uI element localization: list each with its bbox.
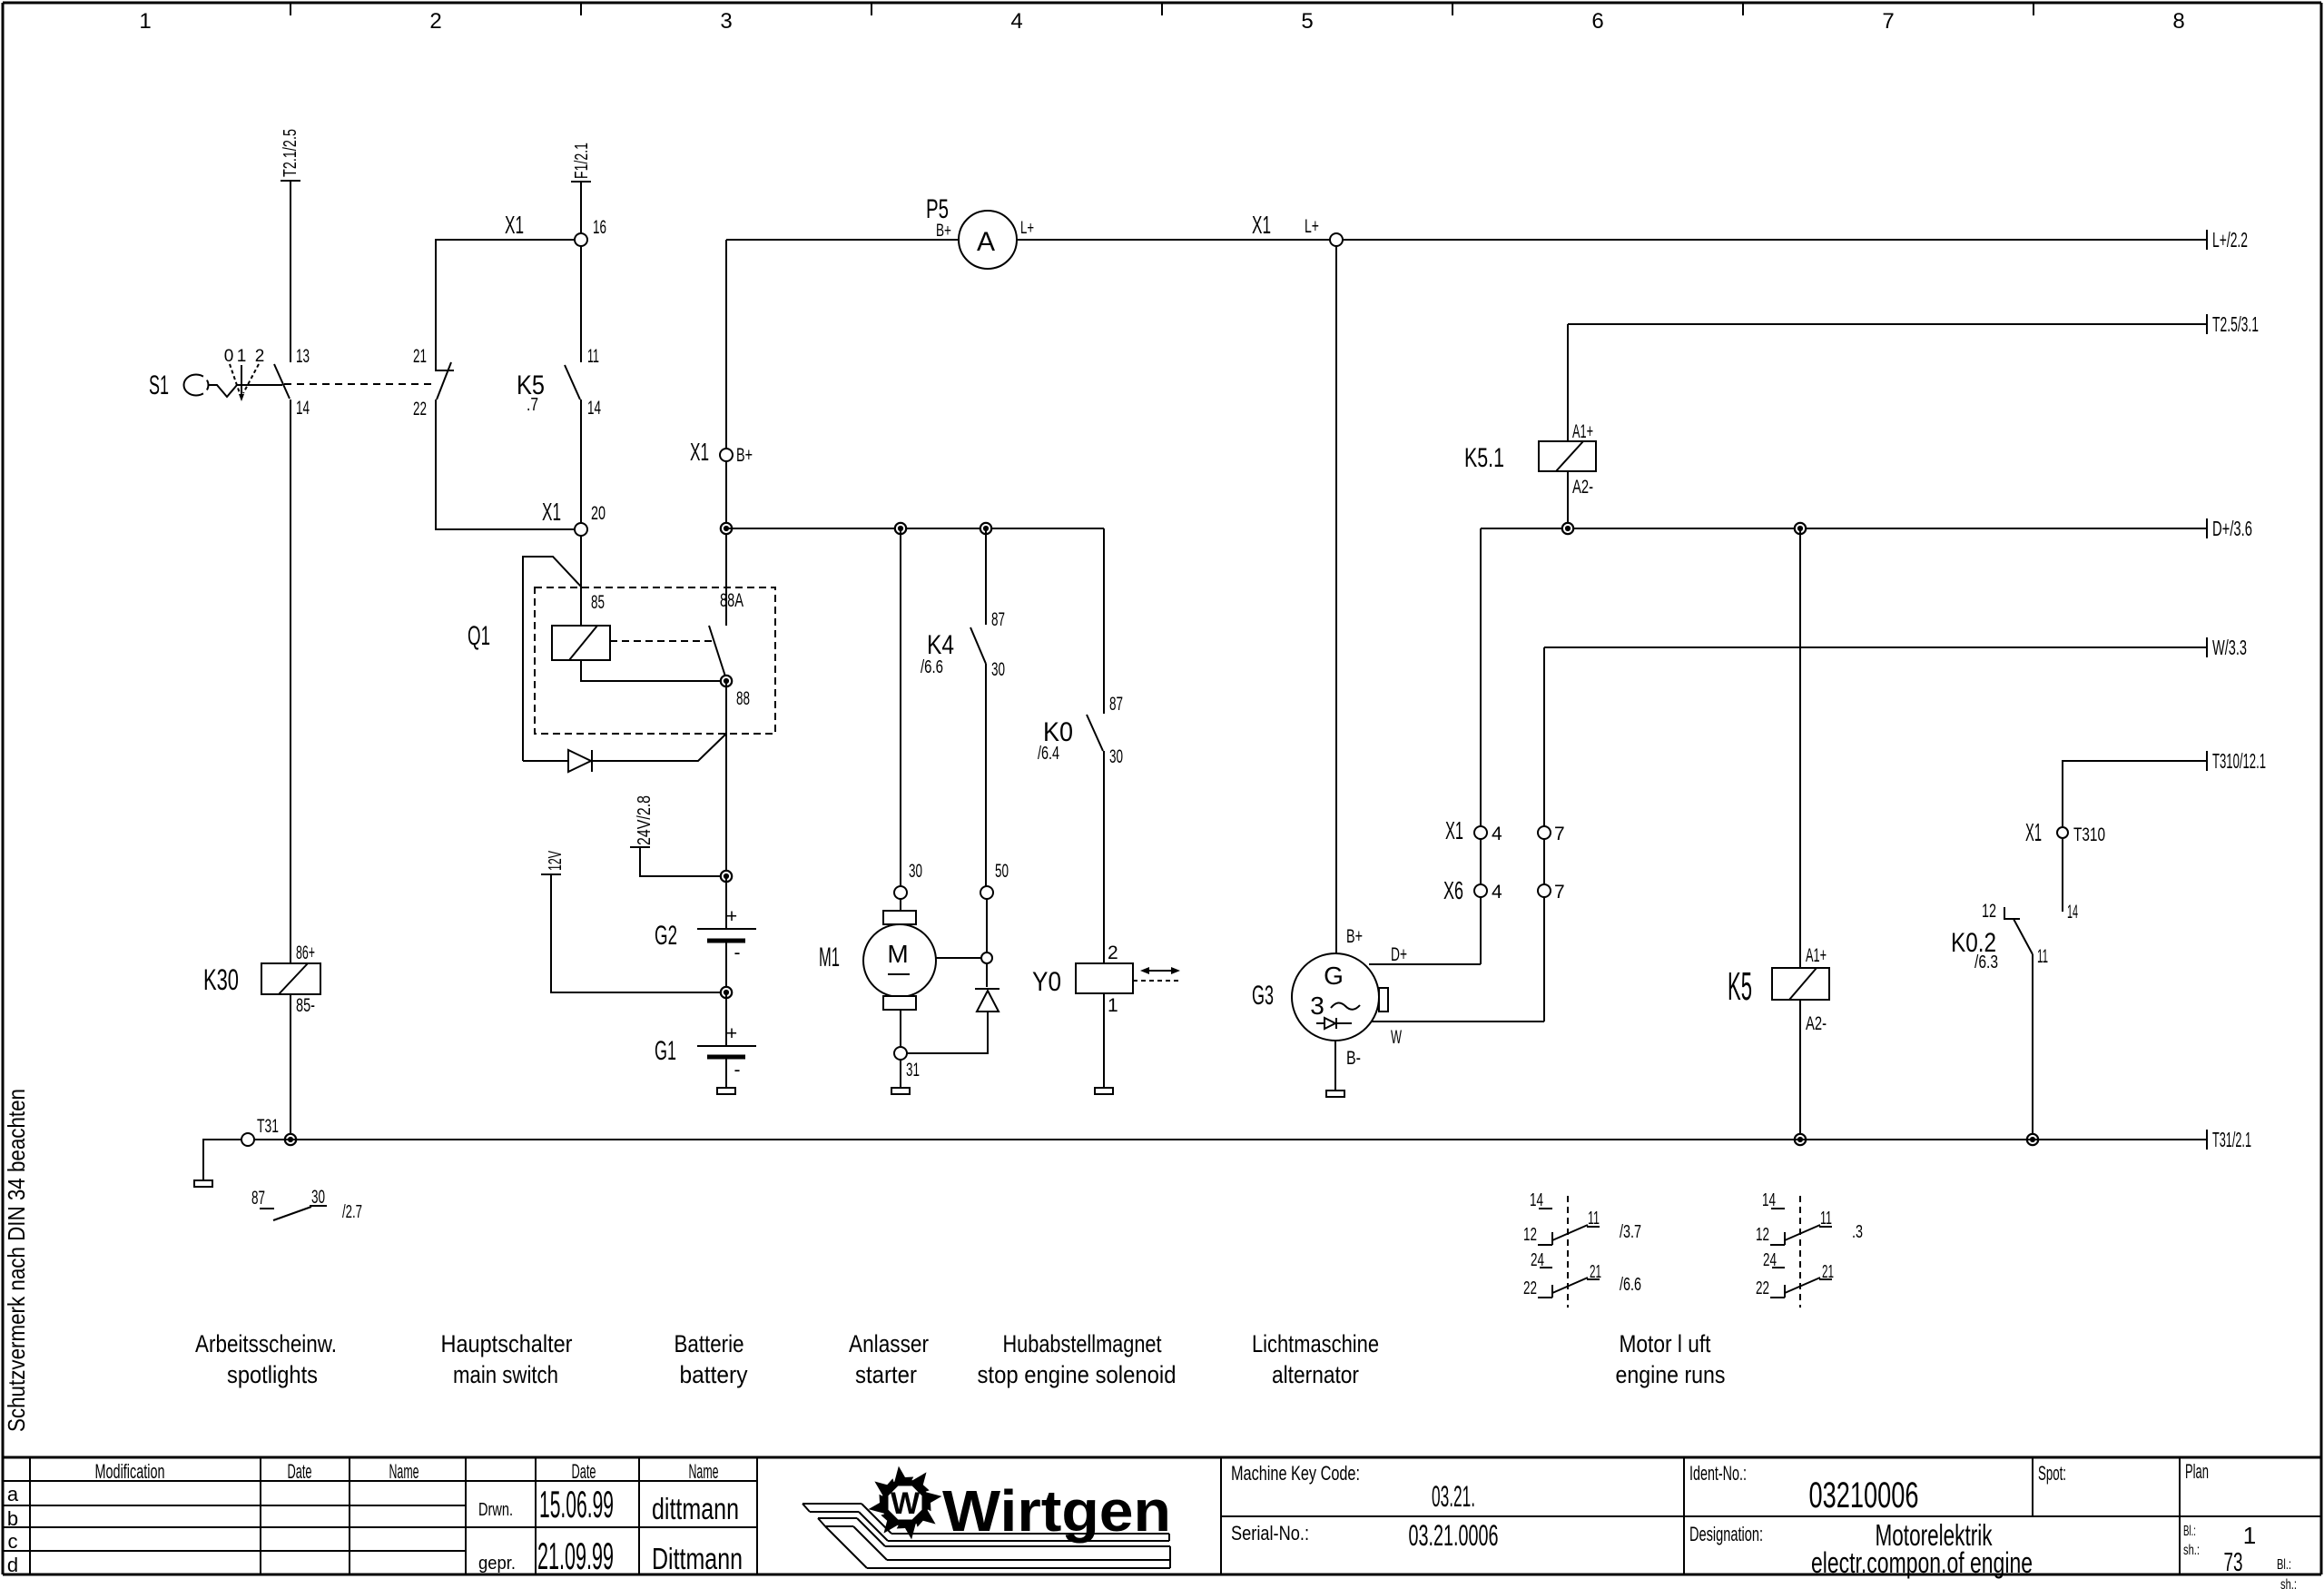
svg-text:-: - xyxy=(734,943,741,963)
svg-text:11: 11 xyxy=(587,346,599,367)
node junction K4 tap xyxy=(980,523,991,534)
contact K5 21/22 (NC) xyxy=(413,346,454,419)
svg-text:P5: P5 xyxy=(926,194,949,224)
wire T310 to contact 14 xyxy=(2062,839,2063,912)
flag T31/2.1 xyxy=(2206,1130,2208,1150)
ground bar T31 xyxy=(194,1180,212,1187)
wire M1 to solenoid node xyxy=(936,957,981,959)
svg-text:Name: Name xyxy=(689,1460,719,1483)
svg-text:6: 6 xyxy=(1591,9,1603,34)
ident no cell xyxy=(1689,1462,1919,1515)
wire rail to M1 30 xyxy=(900,528,901,886)
svg-text:Q1: Q1 xyxy=(468,621,490,651)
svg-text:spotlights: spotlights xyxy=(227,1361,318,1388)
svg-text:X1: X1 xyxy=(690,438,709,466)
wire Q1 bypass branch upper xyxy=(523,557,581,761)
terminal X1 B+ xyxy=(690,438,753,466)
wire B+ to contact 88A xyxy=(725,461,727,626)
rail L+ (y=264) left of P5 xyxy=(726,239,959,241)
svg-text:electr.compon.of engine: electr.compon.of engine xyxy=(1811,1546,2033,1579)
svg-text:20: 20 xyxy=(591,503,606,524)
wire contact K0 to Y0 xyxy=(1103,751,1105,963)
svg-text:2: 2 xyxy=(255,347,265,366)
svg-text:14: 14 xyxy=(1762,1190,1776,1210)
wire K30 to T31 rail xyxy=(290,994,291,1140)
svg-text:31: 31 xyxy=(906,1060,920,1081)
svg-text:Hubabstellmagnet: Hubabstellmagnet xyxy=(1003,1330,1162,1357)
wire X1 L+ down to G3 B+ xyxy=(1335,246,1337,953)
svg-text:85-: 85- xyxy=(296,995,315,1016)
selector positions 0 1 2 xyxy=(224,347,265,401)
sheet number cell xyxy=(2183,1522,2297,1589)
wire diode to 31 xyxy=(907,1012,988,1053)
svg-text:/6.6: /6.6 xyxy=(1620,1275,1641,1295)
label Anlasser starter xyxy=(849,1330,929,1388)
node junction 24V tap xyxy=(721,871,732,882)
flag W/3.3 xyxy=(2206,637,2208,657)
svg-text:2: 2 xyxy=(429,9,441,34)
diode M1 freewheel xyxy=(975,989,1000,1012)
svg-text:12V: 12V xyxy=(546,851,566,871)
svg-text:X1: X1 xyxy=(542,498,561,526)
svg-text:A2-: A2- xyxy=(1572,477,1593,498)
contact K5 11/14 (NO) xyxy=(517,346,601,419)
svg-text:11: 11 xyxy=(1588,1209,1600,1229)
svg-text:86+: 86+ xyxy=(296,943,315,963)
Wirtgen logo gear emblem xyxy=(869,1466,942,1540)
svg-text:Bl.:: Bl.: xyxy=(2183,1524,2196,1539)
svg-text:Hauptschalter: Hauptschalter xyxy=(441,1330,573,1357)
wire K0.2 11 to T31 rail xyxy=(2032,954,2033,1140)
svg-text:c: c xyxy=(8,1530,18,1553)
label Hubabstellmagnet stop engine solenoid xyxy=(978,1330,1177,1388)
svg-text:Batterie: Batterie xyxy=(675,1330,744,1357)
wire G3 D+ xyxy=(1369,944,1481,965)
svg-text:30: 30 xyxy=(311,1187,325,1208)
svg-text:1: 1 xyxy=(1108,995,1118,1016)
svg-text:T2.1/2.5: T2.1/2.5 xyxy=(281,129,300,177)
svg-text:4: 4 xyxy=(1492,882,1502,903)
svg-text:03.21.: 03.21. xyxy=(1432,1480,1475,1513)
svg-text:14: 14 xyxy=(296,398,310,419)
wire rail to contact K4 87 xyxy=(985,528,987,625)
svg-text:G3: G3 xyxy=(1252,981,1274,1011)
relay coil K5.1 xyxy=(1464,421,1596,498)
svg-text:W/3.3: W/3.3 xyxy=(2212,636,2247,659)
svg-text:main switch: main switch xyxy=(453,1361,558,1388)
mechanical link Q1 coil to contact xyxy=(610,640,714,642)
svg-text:7: 7 xyxy=(1882,9,1894,34)
diode Q1 bypass xyxy=(523,734,726,772)
svg-text:88A: 88A xyxy=(720,590,743,611)
svg-text:14: 14 xyxy=(587,398,601,419)
svg-text:+: + xyxy=(726,906,737,927)
svg-text:Bl.:: Bl.: xyxy=(2277,1557,2291,1573)
label Motor l uft engine runs xyxy=(1616,1330,1726,1388)
battery G1 xyxy=(655,992,756,1088)
svg-text:D+: D+ xyxy=(1391,944,1407,965)
terminal 31 M1 xyxy=(894,1047,920,1081)
rail T2.5 (y=357) xyxy=(1568,323,2207,325)
contact Q1 88A/88 xyxy=(709,626,726,679)
svg-text:12: 12 xyxy=(1982,901,1996,922)
svg-text:3: 3 xyxy=(1310,992,1324,1020)
svg-text:13: 13 xyxy=(296,346,310,367)
svg-text:12: 12 xyxy=(1523,1225,1537,1245)
rail L+ P5 to X1 xyxy=(1017,239,1330,241)
svg-text:B-: B- xyxy=(1346,1048,1361,1069)
actuator arrow Y0 xyxy=(1133,967,1180,981)
svg-text:88: 88 xyxy=(736,688,750,709)
wire G3 W xyxy=(1372,1021,1544,1048)
svg-text:Y0: Y0 xyxy=(1032,967,1061,997)
node 88 junction xyxy=(721,676,750,709)
svg-text:D+/3.6: D+/3.6 xyxy=(2212,517,2252,540)
svg-text:4: 4 xyxy=(1010,9,1022,34)
wire node 88 down to battery xyxy=(725,681,727,876)
svg-text:87: 87 xyxy=(991,609,1005,630)
svg-text:7: 7 xyxy=(1554,882,1565,903)
contact map K5.1 xyxy=(1523,1190,1641,1308)
ground bar G3 xyxy=(1326,1091,1344,1097)
svg-text:T310: T310 xyxy=(2073,824,2105,845)
wire X1:16 to contact 11 xyxy=(580,246,582,362)
title block row letters xyxy=(7,1483,19,1576)
svg-text:X1: X1 xyxy=(1252,211,1271,239)
svg-text:24V/2.8: 24V/2.8 xyxy=(635,795,655,845)
node junction K30 on T31 rail xyxy=(285,1134,296,1145)
svg-text:11: 11 xyxy=(2037,946,2048,967)
svg-text:03.21.0006: 03.21.0006 xyxy=(1409,1519,1499,1552)
wire G3 B- to ground xyxy=(1335,1041,1361,1091)
flag L+/2.2 xyxy=(2206,230,2208,250)
machine key code cell xyxy=(1231,1462,1475,1513)
flag T2.1/2.5 xyxy=(281,129,300,181)
svg-text:7: 7 xyxy=(1554,824,1565,844)
svg-text:.7: .7 xyxy=(527,395,538,415)
contact map K5 xyxy=(1756,1190,1863,1308)
svg-text:dittmann: dittmann xyxy=(652,1492,739,1525)
svg-text:gepr.: gepr. xyxy=(478,1554,516,1574)
title block grid xyxy=(3,1457,2321,1574)
svg-text:A: A xyxy=(977,227,995,257)
svg-text:X1: X1 xyxy=(505,211,524,239)
svg-text:W: W xyxy=(891,1486,921,1521)
svg-text:X1: X1 xyxy=(1445,816,1463,844)
rail D+ (y=582) right section xyxy=(1481,528,2207,529)
svg-text:/6.3: /6.3 xyxy=(1974,952,1998,972)
flag F1/2.1 xyxy=(571,143,592,182)
svg-text:A1+: A1+ xyxy=(1572,421,1593,442)
svg-text:T2.5/3.1: T2.5/3.1 xyxy=(2212,312,2259,336)
terminal X1:7 xyxy=(1538,824,1565,844)
svg-text:4: 4 xyxy=(1492,824,1502,844)
label Arbeitsscheinw. spotlights xyxy=(195,1330,337,1388)
svg-text:/6.4: /6.4 xyxy=(1038,744,1059,764)
svg-text:.3: .3 xyxy=(1852,1222,1863,1242)
svg-text:87: 87 xyxy=(251,1188,265,1209)
svg-text:5: 5 xyxy=(1301,9,1313,34)
wire S1 terminal 13 xyxy=(290,181,291,362)
svg-text:B+: B+ xyxy=(736,445,753,466)
wire rail corner to contact K0 87 xyxy=(1103,528,1105,714)
svg-text:X6: X6 xyxy=(1443,876,1463,904)
svg-text:Modification: Modification xyxy=(95,1460,165,1483)
svg-text:engine runs: engine runs xyxy=(1616,1361,1726,1388)
node junction 12V tap xyxy=(721,987,732,998)
node junction K5 on T31 rail xyxy=(1795,1134,1806,1145)
svg-text:11: 11 xyxy=(1820,1209,1832,1229)
wire W column upper xyxy=(1543,647,1545,826)
svg-text:B+: B+ xyxy=(1346,926,1363,947)
node junction K5.1 on D+ rail xyxy=(1562,523,1573,534)
svg-text:Spot:: Spot: xyxy=(2038,1462,2066,1485)
designation cell xyxy=(1689,1518,2033,1579)
svg-text:B+: B+ xyxy=(936,222,951,241)
svg-text:M1: M1 xyxy=(819,943,840,972)
svg-text:21: 21 xyxy=(413,346,427,367)
svg-text:T31: T31 xyxy=(257,1116,279,1137)
svg-text:Name: Name xyxy=(389,1460,419,1483)
svg-text:Lichtmaschine: Lichtmaschine xyxy=(1252,1330,1379,1357)
contact K0.2 changeover xyxy=(1951,901,2048,972)
svg-text:d: d xyxy=(7,1554,18,1576)
terminal X6:7 xyxy=(1538,882,1565,903)
wire X6:7 to G3 W xyxy=(1543,897,1545,1021)
contact K4 87/30 xyxy=(921,609,1005,680)
svg-text:K5: K5 xyxy=(1728,964,1752,1009)
svg-text:Motor l uft: Motor l uft xyxy=(1620,1330,1711,1357)
relay coil K5 xyxy=(1728,945,1829,1034)
svg-text:22: 22 xyxy=(413,399,427,419)
svg-text:X1: X1 xyxy=(2025,818,2042,846)
wire contact K4 to terminal 50 xyxy=(985,664,987,886)
contact S1 13/14 xyxy=(274,346,310,419)
svg-text:A1+: A1+ xyxy=(1806,945,1827,966)
ammeter P5 xyxy=(926,194,1034,269)
svg-text:1: 1 xyxy=(237,347,247,366)
wire X1:7 to X6:7 xyxy=(1543,839,1545,884)
motor M1 xyxy=(819,899,936,1010)
wire K5.1 A2- to D+ rail xyxy=(1567,471,1569,528)
svg-text:K30: K30 xyxy=(203,963,239,996)
wire K5 A2- to T31 rail xyxy=(1799,1000,1801,1140)
wire 50 to node xyxy=(986,899,988,952)
svg-text:W: W xyxy=(1391,1027,1402,1048)
svg-text:87: 87 xyxy=(1109,694,1123,715)
alternator G3 xyxy=(1252,953,1379,1041)
wire M1 to terminal 31 xyxy=(900,1010,901,1047)
svg-text:30: 30 xyxy=(1109,746,1123,767)
wire node to diode xyxy=(986,963,988,987)
svg-text:alternator: alternator xyxy=(1272,1361,1359,1388)
svg-text:battery: battery xyxy=(680,1361,748,1388)
svg-text:30: 30 xyxy=(909,861,922,882)
mechanical link S1 to K5 contact xyxy=(284,383,434,385)
terminal X1 L+ xyxy=(1252,211,1343,246)
wire T2.5 to K5.1 A1+ xyxy=(1567,324,1569,441)
wire 31 to ground xyxy=(900,1060,901,1088)
svg-text:Machine Key Code:: Machine Key Code: xyxy=(1231,1462,1360,1485)
svg-text:Dittmann: Dittmann xyxy=(652,1542,743,1575)
title block drawn row xyxy=(478,1483,739,1525)
ground bar Y0 xyxy=(1095,1088,1113,1094)
svg-text:b: b xyxy=(7,1507,18,1530)
terminal 30 M1 xyxy=(894,861,922,899)
rail W (y=713) xyxy=(1544,646,2207,648)
svg-text:14: 14 xyxy=(2067,902,2078,923)
wire F1 to X1:16 xyxy=(580,182,582,233)
label Batterie battery xyxy=(675,1330,748,1388)
svg-text:Drwn.: Drwn. xyxy=(478,1500,513,1520)
wire X1:20 to Q1 coil 85 xyxy=(580,536,582,626)
wire X1:4 to X6:4 xyxy=(1480,839,1482,884)
terminal X1:4 xyxy=(1445,816,1502,844)
svg-text:stop engine solenoid: stop engine solenoid xyxy=(978,1361,1177,1388)
rail T310 (y=838) xyxy=(2063,761,2207,826)
terminal X1 T310 xyxy=(2025,818,2105,846)
svg-text:22: 22 xyxy=(1756,1278,1769,1298)
svg-text:Wirtgen: Wirtgen xyxy=(942,1478,1171,1544)
svg-text:/6.6: /6.6 xyxy=(921,657,943,677)
contact map K30 87/30 xyxy=(251,1187,362,1222)
svg-text:03210006: 03210006 xyxy=(1809,1475,1919,1515)
solenoid Y0 xyxy=(1032,943,1133,1016)
svg-text:K4: K4 xyxy=(927,630,954,660)
rail T31 (y=1255) xyxy=(254,1139,2207,1140)
flag T310/12.1 xyxy=(2206,751,2208,771)
svg-text:50: 50 xyxy=(995,861,1009,882)
relay Q1 enclosure (dashed) xyxy=(535,587,775,734)
wire contact 14 to X1:20 xyxy=(580,400,582,523)
svg-text:a: a xyxy=(7,1483,19,1505)
contact K0 87/30 xyxy=(1038,694,1123,767)
svg-text:22: 22 xyxy=(1523,1278,1537,1298)
svg-text:85: 85 xyxy=(591,592,605,613)
battery G2 xyxy=(655,876,756,992)
node junction K0.2 on T31 rail xyxy=(2027,1134,2038,1145)
svg-text:-: - xyxy=(734,1060,741,1081)
wire X1:16 to contact 21 xyxy=(436,240,575,363)
svg-text:12: 12 xyxy=(1756,1225,1769,1245)
svg-text:21.09.99: 21.09.99 xyxy=(537,1535,614,1577)
svg-text:3: 3 xyxy=(720,9,732,34)
svg-text:Arbeitsscheinw.: Arbeitsscheinw. xyxy=(195,1330,337,1357)
title block checked row xyxy=(478,1535,743,1577)
svg-text:G2: G2 xyxy=(655,921,677,951)
svg-text:16: 16 xyxy=(593,217,606,238)
svg-text:K5.1: K5.1 xyxy=(1464,443,1504,473)
label Lichtmaschine alternator xyxy=(1252,1330,1379,1388)
svg-text:30: 30 xyxy=(991,659,1005,680)
serial no cell xyxy=(1231,1519,1499,1552)
svg-text:sh.:: sh.: xyxy=(2183,1543,2200,1558)
svg-text:8: 8 xyxy=(2172,9,2184,34)
wire S1 14 to K30 xyxy=(290,400,291,963)
wire D+ rail to K5 A1+ xyxy=(1799,528,1801,968)
svg-text:/2.7: /2.7 xyxy=(342,1202,362,1222)
node junction B+ rail xyxy=(721,523,732,534)
svg-text:14: 14 xyxy=(1530,1190,1543,1210)
wire contact 22 to X1:20 xyxy=(436,400,574,529)
svg-text:15.06.99: 15.06.99 xyxy=(539,1483,614,1525)
relay coil K30 xyxy=(203,963,320,996)
svg-text:F1/2.1: F1/2.1 xyxy=(572,143,592,179)
relay coil Q1 xyxy=(468,621,610,660)
svg-text:73: 73 xyxy=(2224,1548,2243,1577)
ground bar battery G1 xyxy=(717,1088,735,1094)
terminal X1:16 xyxy=(505,211,606,246)
svg-text:L+: L+ xyxy=(1020,219,1034,238)
svg-text:Schutzvermerk nach DIN 34 beac: Schutzvermerk nach DIN 34 beachten xyxy=(3,1089,30,1432)
wire D+ column xyxy=(1480,528,1482,826)
svg-text:Designation:: Designation: xyxy=(1689,1523,1763,1545)
wire Y0 to ground xyxy=(1103,993,1105,1088)
svg-text:0: 0 xyxy=(224,347,234,366)
svg-text:Serial-No.:: Serial-No.: xyxy=(1231,1522,1309,1545)
ground bar M1 xyxy=(891,1088,910,1094)
flag D+/3.6 xyxy=(2206,518,2208,538)
title block headers xyxy=(95,1460,719,1483)
svg-text:T310/12.1: T310/12.1 xyxy=(2212,749,2266,773)
svg-text:M: M xyxy=(887,940,908,968)
terminal 50 xyxy=(980,861,1009,899)
svg-text:+: + xyxy=(726,1023,737,1044)
svg-text:Date: Date xyxy=(288,1460,312,1483)
wire coil bottom to node 88 xyxy=(581,660,720,681)
svg-text:/3.7: /3.7 xyxy=(1620,1222,1641,1242)
switch S1 operator xyxy=(149,370,282,400)
svg-text:2: 2 xyxy=(1108,943,1118,963)
wire L+ rail corner down to X1 B+ xyxy=(725,240,727,449)
node solenoid circle xyxy=(981,952,992,963)
svg-text:Plan: Plan xyxy=(2185,1460,2209,1483)
terminal X1:20 xyxy=(542,498,606,536)
flag 12V xyxy=(541,851,721,992)
svg-text:L+: L+ xyxy=(1305,216,1319,237)
svg-text:G1: G1 xyxy=(655,1036,676,1066)
svg-text:T31/2.1: T31/2.1 xyxy=(2212,1128,2251,1151)
svg-text:sh.:: sh.: xyxy=(2280,1577,2297,1589)
Wirtgen logo swoosh xyxy=(803,1504,1170,1568)
flag 24V/2.8 xyxy=(630,795,721,876)
svg-text:1: 1 xyxy=(2243,1522,2256,1549)
wire X6:4 to G3 D+ xyxy=(1480,897,1482,964)
node junction M1 tap xyxy=(895,523,906,534)
terminal box G3 W xyxy=(1379,988,1388,1012)
svg-text:Ident-No.:: Ident-No.: xyxy=(1689,1462,1747,1485)
flag T2.5/3.1 xyxy=(2206,314,2208,334)
svg-text:Anlasser: Anlasser xyxy=(849,1330,929,1357)
rail +24V (y=582) left section xyxy=(726,528,1104,529)
terminal X6:4 xyxy=(1443,876,1502,904)
node junction K5 coil on D+ rail xyxy=(1795,523,1806,534)
svg-text:L+/2.2: L+/2.2 xyxy=(2212,228,2248,252)
label Hauptschalter main switch xyxy=(441,1330,573,1388)
svg-text:G: G xyxy=(1324,962,1344,990)
svg-text:starter: starter xyxy=(855,1361,917,1388)
rail L+ X1 to edge xyxy=(1343,239,2207,241)
svg-text:1: 1 xyxy=(139,9,151,34)
node T31 xyxy=(241,1116,279,1146)
svg-text:A2-: A2- xyxy=(1806,1013,1827,1034)
svg-text:Date: Date xyxy=(572,1460,596,1483)
wire T31 to ground xyxy=(203,1140,241,1180)
svg-text:S1: S1 xyxy=(149,370,169,400)
